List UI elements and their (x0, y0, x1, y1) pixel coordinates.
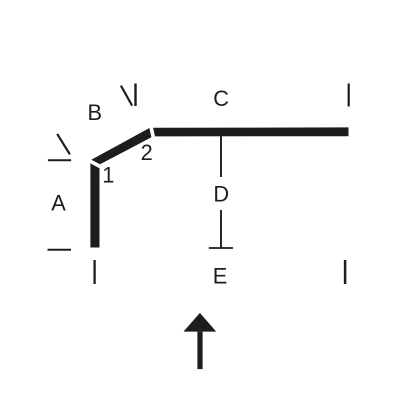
svg-text:A: A (51, 190, 66, 215)
svg-text:E: E (213, 263, 228, 288)
svg-text:C: C (213, 86, 229, 111)
svg-text:B: B (88, 100, 103, 125)
svg-text:2: 2 (141, 140, 153, 165)
svg-text:D: D (213, 181, 229, 206)
svg-text:1: 1 (102, 163, 114, 188)
